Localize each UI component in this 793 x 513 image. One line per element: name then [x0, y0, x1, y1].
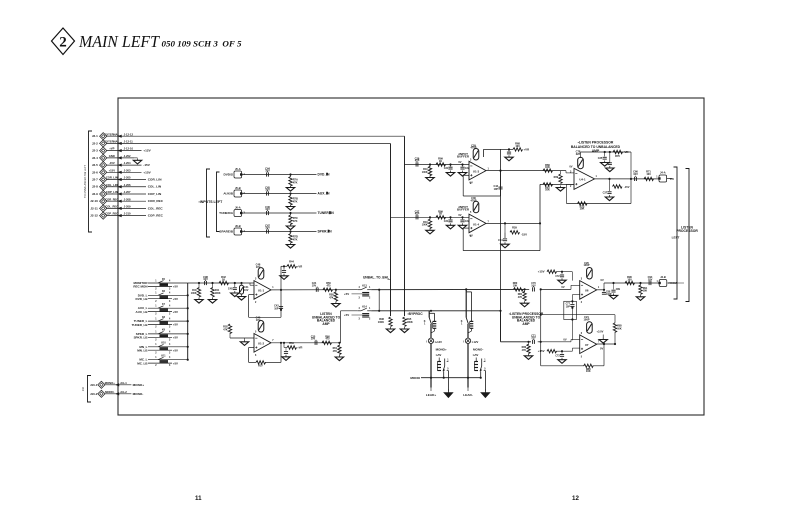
svg-text:U7: U7 — [585, 343, 589, 347]
ground C37 — [609, 195, 611, 197]
capacitor C40 gnd — [234, 283, 236, 287]
svg-text:U1-2: U1-2 — [258, 342, 265, 346]
svg-text:050 109 SCH 3 OF 5: 050 109 SCH 3 OF 5 — [162, 40, 242, 49]
svg-text:1: 1 — [488, 169, 490, 171]
capacitor C25 series — [314, 341, 316, 345]
wire net vertical x500 — [500, 171, 502, 342]
capacitor C21 on U7 — [587, 322, 593, 334]
resistor R60 series — [322, 341, 332, 344]
svg-text:7: 7 — [272, 340, 274, 342]
svg-text:MAIN LEFT: MAIN LEFT — [78, 32, 160, 51]
ground — [429, 228, 431, 230]
arrow J2-3 — [118, 149, 122, 152]
capacitor C73 — [561, 351, 563, 354]
svg-text:10V: 10V — [256, 265, 261, 269]
svg-text:2: 2 — [155, 314, 157, 316]
svg-text:1: 1 — [424, 323, 426, 326]
svg-text:I+5V: I+5V — [473, 353, 479, 357]
arrow J2-9 — [118, 192, 122, 195]
capacitor C29 on U1-3 — [473, 148, 479, 160]
relay K10 — [158, 344, 164, 346]
ground RY15 — [447, 390, 449, 393]
svg-text:3: 3 — [359, 319, 361, 321]
svg-text:C34: C34 — [498, 239, 503, 242]
capacitor C89 gnd — [612, 282, 614, 284]
svg-text:-15V: -15V — [521, 232, 527, 236]
connector J2-6 — [100, 169, 107, 176]
schematic border frame — [118, 98, 704, 415]
wire input row 3 — [242, 212, 317, 214]
svg-text:+15V: +15V — [538, 349, 545, 353]
svg-text:AUX_IN: AUX_IN — [318, 192, 331, 196]
svg-text:10V: 10V — [256, 318, 261, 322]
svg-text:100: 100 — [627, 277, 632, 281]
svg-text:J2-1: J2-1 — [92, 134, 98, 138]
svg-text:R29: R29 — [512, 226, 517, 230]
svg-text:+5V: +5V — [173, 323, 178, 327]
ground U7 pin — [602, 335, 604, 338]
svg-text:K10: K10 — [161, 343, 166, 345]
wire row MONITOR — [148, 282, 188, 284]
svg-text:10V: 10V — [265, 188, 270, 192]
ground C41 — [241, 295, 243, 297]
svg-text:1: 1 — [596, 176, 598, 178]
wire J2-10 — [107, 200, 146, 202]
indicator Q15 — [428, 338, 433, 343]
svg-text:DVD_LB: DVD_LB — [136, 297, 149, 301]
svg-text:DVD_IN: DVD_IN — [318, 173, 331, 177]
svg-text:10K: 10K — [643, 290, 648, 293]
capacitor C98 — [204, 281, 206, 285]
svg-text:1: 1 — [155, 306, 157, 308]
svg-text:10V: 10V — [311, 338, 316, 341]
relay K13 — [358, 289, 361, 291]
wire U1-3 feedback vertical — [500, 149, 502, 170]
svg-text:100K: 100K — [378, 320, 384, 324]
svg-text:J6-A: J6-A — [235, 205, 241, 209]
svg-text:10V: 10V — [312, 284, 317, 287]
junction fb1 — [283, 265, 285, 267]
svg-text:+VR: +VR — [297, 346, 302, 350]
wire MONO line — [421, 377, 481, 379]
ground C72 — [561, 278, 563, 280]
wire row TUNER_L — [148, 320, 188, 322]
connector J5-B — [234, 190, 242, 197]
wire J2-5 — [107, 164, 142, 166]
op-amp U4 — [574, 168, 595, 189]
svg-text:K9: K9 — [162, 330, 166, 332]
svg-text:MONO-: MONO- — [133, 392, 144, 396]
resistor R58 — [335, 290, 337, 293]
junction fb bus row2 — [540, 341, 542, 343]
svg-text:1: 1 — [155, 331, 157, 333]
wire U1-3 minus loop — [463, 174, 469, 176]
resistor R99 series — [436, 163, 446, 166]
svg-text:REC MON: REC MON — [133, 285, 147, 289]
ground bus B — [390, 327, 392, 329]
svg-text:K14: K14 — [362, 305, 367, 308]
capacitor C31 to gnd — [450, 165, 452, 167]
svg-text:4: 4 — [169, 279, 171, 282]
resistor R7B — [290, 194, 292, 196]
junction bus MC_L — [187, 359, 189, 361]
wire cross coupling — [541, 314, 615, 316]
svg-text:2: 2 — [155, 289, 157, 291]
svg-text:AG-2: AG-2 — [120, 390, 127, 394]
svg-text:LEFT: LEFT — [672, 236, 680, 240]
svg-text:10P: 10P — [566, 306, 571, 308]
svg-text:+5V: +5V — [344, 292, 349, 296]
svg-text:5: 5 — [484, 369, 486, 371]
indicator Q16 — [465, 338, 470, 343]
wire bus A vertical — [404, 136, 406, 316]
ground J2-4 — [137, 158, 139, 160]
svg-text:COR_REC: COR_REC — [105, 197, 118, 201]
wire J2-6 — [107, 171, 142, 173]
svg-text:▪INPUTS LEFT: ▪INPUTS LEFT — [199, 200, 224, 204]
svg-text:J2-3: J2-3 — [92, 149, 98, 153]
svg-text:47K: 47K — [223, 328, 228, 331]
resistor R96 bus B — [389, 317, 392, 327]
wire input row 4 — [242, 231, 317, 233]
svg-text:1: 1 — [155, 357, 157, 359]
wire row2 right — [500, 311, 502, 342]
svg-text:0V: 0V — [601, 278, 604, 282]
relay RY16 — [474, 361, 478, 363]
ground RY16 — [484, 390, 486, 393]
svg-text:+15V: +15V — [143, 170, 151, 174]
svg-text:J2-12: J2-12 — [90, 214, 98, 218]
connector J2-11 — [100, 205, 107, 212]
junction bus SPKR_L — [187, 333, 189, 335]
svg-text:10P: 10P — [494, 188, 499, 191]
svg-text:10V: 10V — [531, 337, 536, 340]
wire U1-3 feedback top — [484, 148, 501, 150]
junction — [429, 216, 431, 218]
svg-text:0V: 0V — [458, 160, 461, 164]
svg-text:+5V: +5V — [173, 310, 178, 314]
junction out2 — [639, 282, 641, 284]
wire U4 output — [595, 178, 659, 180]
svg-text:COR_LIN: COR_LIN — [106, 176, 118, 180]
svg-text:J-210: J-210 — [124, 212, 131, 216]
svg-text:J5-B: J5-B — [235, 186, 241, 190]
svg-text:10V: 10V — [265, 226, 270, 230]
svg-text:R57: R57 — [258, 364, 263, 368]
ground near U1-2 in — [244, 340, 246, 342]
wire column down — [430, 344, 432, 388]
svg-text:K7: K7 — [162, 304, 166, 306]
svg-text:J2-8: J2-8 — [92, 185, 98, 189]
resistor R67 series — [543, 183, 553, 186]
resistor R7A — [290, 175, 292, 177]
wire U1-3 output — [486, 170, 540, 172]
relay K9 — [158, 332, 164, 334]
junction U1-3 out — [499, 170, 501, 172]
junction main a — [198, 282, 200, 284]
svg-text:10V: 10V — [244, 289, 249, 292]
svg-text:1: 1 — [155, 319, 157, 321]
capacitor C72 — [561, 272, 563, 275]
wire J2-1 — [107, 135, 405, 137]
svg-text:MONO+: MONO+ — [133, 383, 145, 387]
wire row DVD_L — [148, 294, 188, 296]
connector J2-1 — [100, 133, 107, 140]
capacitor C41 — [241, 283, 243, 285]
junction row 1 — [289, 173, 291, 175]
svg-text:J-206: J-206 — [124, 183, 131, 187]
svg-text:U1-4: U1-4 — [473, 222, 480, 226]
svg-text:SPARE/B: SPARE/B — [219, 230, 233, 234]
svg-text:6: 6 — [581, 333, 583, 335]
connector J4-A — [659, 175, 667, 182]
wire K13-K14 link — [378, 290, 380, 311]
svg-text:C40: C40 — [228, 288, 233, 291]
wire left fb bus — [540, 289, 542, 365]
capacitor C35 fb — [604, 152, 606, 157]
wire U1-4 minus loop — [463, 227, 469, 229]
svg-text:+12V: +12V — [143, 149, 151, 153]
bracket output outer — [686, 169, 690, 302]
wire J2-4 — [107, 157, 134, 159]
resistor R7C — [290, 213, 292, 215]
capacitor C46b on U1-2 — [258, 321, 264, 333]
svg-text:COL_REC: COL_REC — [105, 205, 118, 209]
svg-text:6: 6 — [255, 355, 257, 357]
ground C73 — [561, 358, 563, 360]
capacitor C43 — [498, 186, 502, 188]
svg-text:475: 475 — [325, 338, 330, 341]
bracket TO UNBALANCED SW LEFT — [89, 131, 93, 232]
wire row MC_LB — [148, 362, 172, 364]
resistor R55 — [228, 324, 231, 334]
svg-text:J10-2: J10-2 — [90, 392, 98, 396]
svg-text:0V: 0V — [470, 181, 473, 185]
wire U7 fb down — [603, 344, 605, 366]
wire contact down — [467, 324, 469, 338]
junction bus DVD_L — [187, 294, 189, 296]
junction bus TUNER_L — [187, 320, 189, 322]
svg-text:2: 2 — [155, 365, 157, 367]
arrow J2-4 — [118, 156, 122, 159]
svg-text:2: 2 — [255, 302, 257, 304]
svg-text:2: 2 — [155, 339, 157, 341]
svg-text:3: 3 — [255, 279, 257, 281]
wire row TUNER_LB — [148, 324, 172, 326]
ground R41 — [212, 298, 214, 300]
connector J2-3 — [100, 147, 107, 154]
relay K5 — [158, 281, 164, 283]
wire J10-2 — [105, 393, 131, 395]
svg-text:10V: 10V — [648, 277, 653, 281]
svg-text:5: 5 — [447, 369, 449, 371]
wire J2-2 — [107, 142, 391, 144]
ground R58 — [335, 302, 337, 304]
svg-text:0V: 0V — [600, 347, 603, 351]
svg-text:475: 475 — [326, 284, 331, 287]
svg-text:J4-B: J4-B — [660, 275, 666, 279]
svg-text:U4-1: U4-1 — [579, 178, 586, 182]
svg-text:+VP: +VP — [109, 147, 114, 151]
wire U6 output — [597, 289, 604, 291]
capacitor C30 on U1-4 — [473, 201, 479, 213]
svg-text:4: 4 — [359, 286, 361, 289]
capacitor C71 series — [532, 340, 534, 344]
svg-text:MONO+: MONO+ — [105, 381, 115, 385]
svg-text:0V: 0V — [561, 285, 564, 289]
wire row REC MON — [148, 285, 172, 287]
capacitor C46 — [266, 211, 268, 215]
svg-text:10P: 10P — [274, 307, 279, 310]
svg-text:R69: R69 — [554, 176, 559, 179]
wire row MC_L — [148, 359, 188, 361]
svg-text:MONO+: MONO+ — [436, 347, 447, 351]
connector J4-B — [659, 280, 667, 287]
svg-text:SPKR_LB: SPKR_LB — [134, 336, 149, 340]
wire J10-1 — [105, 384, 131, 386]
svg-text:COP_LIN: COP_LIN — [106, 190, 118, 194]
ground R69 — [560, 186, 562, 188]
svg-text:LEAD-: LEAD- — [463, 393, 473, 397]
svg-text:COL_REC: COL_REC — [148, 206, 164, 210]
svg-text:0V: 0V — [458, 213, 461, 217]
junction k14 in — [338, 342, 340, 344]
wire U4 plus input — [540, 170, 566, 172]
junction U1-2 out — [280, 342, 282, 344]
capacitor C45 — [266, 191, 268, 195]
connector J2-4 — [100, 154, 107, 161]
resistor R85 fb — [613, 323, 616, 333]
wire into U7 — [538, 341, 541, 343]
resistor R29 -15V — [504, 223, 506, 232]
svg-text:22P: 22P — [576, 152, 581, 156]
ground bus A — [404, 327, 406, 329]
arrow J2-1 — [118, 135, 122, 138]
svg-text:K11: K11 — [161, 356, 166, 358]
svg-text:TUNER/A: TUNER/A — [219, 211, 234, 215]
svg-text:1: 1 — [656, 177, 658, 179]
svg-text:3: 3 — [470, 159, 472, 161]
wire J2-11 — [107, 207, 146, 209]
capacitor C94 series — [648, 281, 650, 285]
svg-text:K6: K6 — [162, 291, 166, 293]
svg-text:10K: 10K — [545, 188, 550, 192]
svg-text:3: 3 — [169, 339, 171, 341]
svg-text:PROCESSOR: PROCESSOR — [676, 229, 698, 233]
junction main c — [234, 282, 236, 284]
connector J10-1 — [98, 381, 105, 388]
resistor R71 series — [644, 177, 654, 180]
capacitor C77 mid — [571, 300, 573, 302]
capacitor C27 — [415, 215, 417, 219]
svg-text:J5-A: J5-A — [235, 167, 241, 171]
relay K8 — [158, 319, 164, 321]
wire R85 to out — [614, 332, 616, 344]
svg-text:3: 3 — [169, 301, 171, 303]
ground R40 — [198, 298, 200, 300]
svg-text:+5V: +5V — [173, 285, 178, 289]
resistor R41 — [212, 283, 214, 289]
svg-text:10V: 10V — [203, 277, 208, 281]
svg-text:J-12-12: J-12-12 — [124, 132, 134, 136]
svg-text:1: 1 — [369, 287, 371, 289]
ground input row 4 — [290, 243, 292, 245]
wire J4-A to bracket — [667, 178, 673, 180]
svg-text:4: 4 — [169, 305, 171, 308]
resistor R72 below out — [608, 178, 610, 180]
wire row MN_LB — [148, 349, 172, 351]
svg-text:COR_LIN: COR_LIN — [148, 178, 162, 182]
op-amp U6 — [580, 281, 597, 300]
capacitor C47 — [266, 229, 268, 233]
capacitor C44 — [266, 172, 268, 176]
junction — [429, 163, 431, 165]
resistor R61 — [338, 343, 340, 346]
bracket INPUTS LEFT inner — [217, 172, 220, 232]
svg-text:MONO: MONO — [410, 376, 420, 380]
wire relay gnd stem — [484, 371, 486, 391]
arrow J2-5 — [118, 163, 122, 166]
svg-text:I+12V: I+12V — [435, 340, 442, 344]
svg-text:-15V: -15V — [624, 185, 630, 189]
svg-text:12: 12 — [572, 495, 579, 502]
connector J6-B — [234, 228, 242, 235]
svg-text:1: 1 — [155, 280, 157, 282]
svg-text:R70: R70 — [615, 154, 620, 158]
arrow J2-10 — [118, 200, 122, 203]
wire U4 top feedback — [580, 152, 582, 158]
arrow J2-2 — [118, 142, 122, 145]
resistor R70 fb — [613, 150, 623, 153]
svg-text:J4-A: J4-A — [660, 170, 666, 174]
svg-text:47P: 47P — [415, 159, 420, 163]
svg-text:K5: K5 — [162, 279, 166, 281]
relay K14 — [358, 310, 361, 312]
junction bus MN_L — [187, 346, 189, 348]
svg-text:J-207: J-207 — [124, 190, 131, 194]
svg-text:DVD/S: DVD/S — [223, 173, 233, 177]
svg-text:GND: GND — [109, 154, 115, 158]
resistor R73 bottom fb — [578, 202, 588, 205]
op-amp U1-1 — [254, 281, 271, 300]
wire K13 out — [371, 288, 529, 290]
ground C36 — [609, 166, 611, 168]
wire row SPKR_LB — [148, 336, 172, 338]
svg-text:3: 3 — [169, 289, 171, 291]
svg-text:1: 1 — [447, 359, 449, 361]
svg-text:EXTERNAL: EXTERNAL — [104, 132, 119, 136]
svg-text:4: 4 — [169, 318, 171, 321]
capacitor C88 — [603, 290, 605, 292]
svg-text:+3.0V: +3.0V — [597, 330, 604, 334]
svg-text:MONO-: MONO- — [473, 347, 483, 351]
ground input row 1 — [290, 186, 292, 188]
resistor R99 series — [436, 216, 446, 219]
connector J2-7 — [100, 176, 107, 183]
wire into U6 — [541, 288, 571, 290]
resistor R68 +VR — [513, 148, 523, 151]
junction — [449, 216, 451, 218]
wire mid down — [571, 308, 573, 320]
junction U4 out — [630, 178, 632, 180]
bracket output inner — [674, 167, 678, 299]
capacitor C33 at VR — [508, 149, 510, 151]
ground R61 — [338, 355, 340, 357]
resistor R91 — [640, 283, 642, 286]
resistor R82 — [547, 270, 557, 273]
svg-text:K8: K8 — [162, 317, 166, 319]
resistor R84 — [547, 350, 557, 353]
